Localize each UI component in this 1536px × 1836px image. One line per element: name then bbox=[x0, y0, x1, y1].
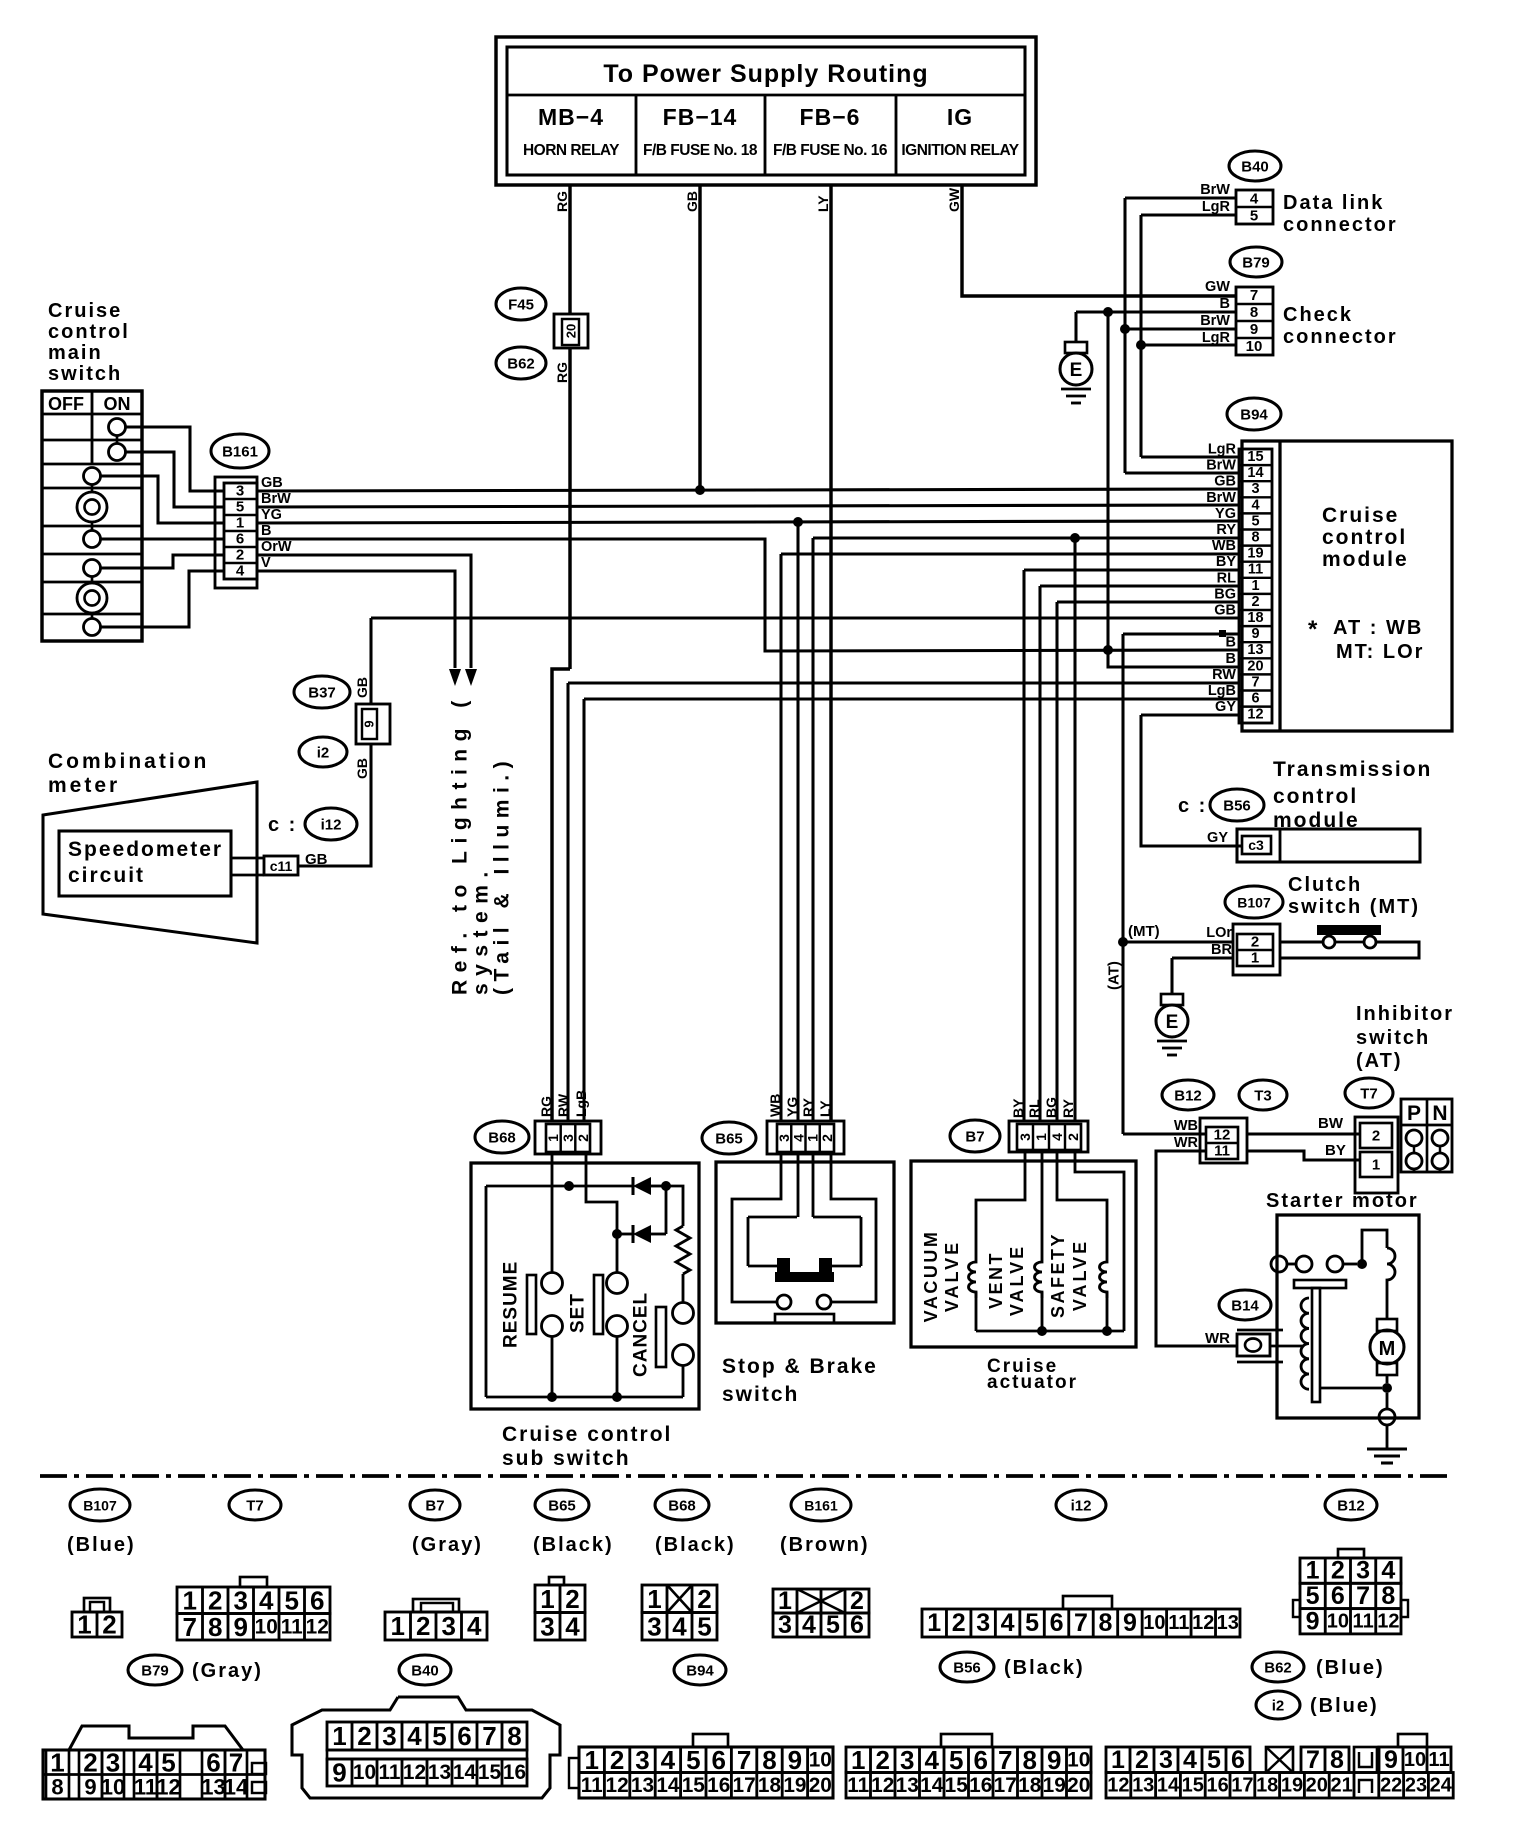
svg-text:1: 1 bbox=[236, 515, 244, 532]
svg-text:13: 13 bbox=[631, 1774, 654, 1797]
svg-text:AT : WB: AT : WB bbox=[1333, 617, 1423, 639]
svg-text:SAFETY: SAFETY bbox=[1048, 1232, 1068, 1318]
svg-text:15: 15 bbox=[945, 1774, 968, 1797]
svg-text:20: 20 bbox=[809, 1774, 832, 1797]
svg-text:12: 12 bbox=[1377, 1610, 1399, 1632]
svg-text:i12: i12 bbox=[321, 817, 342, 834]
svg-text:RW: RW bbox=[555, 1093, 571, 1117]
svg-text:4: 4 bbox=[1381, 1557, 1395, 1585]
svg-text:3: 3 bbox=[442, 1611, 456, 1641]
svg-text:*: * bbox=[1308, 616, 1318, 643]
svg-text:3: 3 bbox=[106, 1748, 120, 1778]
svg-text:17: 17 bbox=[733, 1774, 756, 1797]
svg-text:OFF: OFF bbox=[48, 394, 84, 414]
svg-text:5: 5 bbox=[1306, 1582, 1320, 1610]
svg-text:9: 9 bbox=[332, 1758, 346, 1788]
svg-text:B7: B7 bbox=[425, 1498, 444, 1515]
svg-text:13: 13 bbox=[201, 1775, 225, 1800]
svg-text:8: 8 bbox=[1330, 1746, 1344, 1774]
svg-text:14: 14 bbox=[224, 1775, 249, 1800]
svg-text:2: 2 bbox=[1135, 1746, 1149, 1774]
svg-text:5: 5 bbox=[686, 1745, 700, 1775]
svg-text:7: 7 bbox=[183, 1612, 197, 1642]
svg-text:11: 11 bbox=[379, 1761, 401, 1784]
svg-text:12: 12 bbox=[606, 1774, 629, 1797]
svg-text:2: 2 bbox=[236, 547, 244, 564]
svg-text:switch: switch bbox=[722, 1383, 799, 1406]
svg-text:20: 20 bbox=[1306, 1774, 1328, 1796]
svg-text:WB: WB bbox=[1174, 1118, 1198, 1134]
svg-text:11: 11 bbox=[1214, 1143, 1230, 1160]
svg-text:21: 21 bbox=[1330, 1774, 1352, 1796]
svg-text:OrW: OrW bbox=[261, 539, 292, 555]
svg-text:B: B bbox=[261, 523, 271, 539]
svg-text:T3: T3 bbox=[1254, 1088, 1272, 1105]
svg-text:4: 4 bbox=[259, 1585, 274, 1615]
svg-text:3: 3 bbox=[900, 1745, 914, 1775]
svg-text:VALVE: VALVE bbox=[1070, 1239, 1090, 1311]
svg-text:B56: B56 bbox=[953, 1660, 981, 1677]
svg-text:1: 1 bbox=[1372, 1157, 1380, 1174]
svg-text:7: 7 bbox=[998, 1745, 1012, 1775]
svg-text:5: 5 bbox=[285, 1585, 299, 1615]
svg-text:12: 12 bbox=[1192, 1612, 1214, 1634]
svg-text:B40: B40 bbox=[411, 1663, 439, 1680]
svg-text:4: 4 bbox=[661, 1745, 676, 1775]
svg-text:B12: B12 bbox=[1337, 1498, 1365, 1515]
svg-text:B107: B107 bbox=[83, 1498, 117, 1514]
svg-text:1: 1 bbox=[540, 1584, 554, 1614]
svg-text:3: 3 bbox=[540, 1611, 554, 1641]
svg-text:3: 3 bbox=[1251, 481, 1259, 497]
svg-text:(Black): (Black) bbox=[1004, 1657, 1085, 1679]
svg-text:B40: B40 bbox=[1241, 159, 1269, 176]
svg-text:1: 1 bbox=[1306, 1557, 1320, 1585]
svg-text:19: 19 bbox=[1281, 1774, 1303, 1796]
svg-text:VALVE: VALVE bbox=[942, 1240, 962, 1312]
svg-text:(Black): (Black) bbox=[533, 1534, 614, 1556]
svg-text:9: 9 bbox=[84, 1775, 96, 1800]
svg-text:6: 6 bbox=[974, 1745, 988, 1775]
svg-text:4: 4 bbox=[1250, 191, 1259, 208]
svg-text:i12: i12 bbox=[1071, 1498, 1092, 1515]
svg-text:7: 7 bbox=[737, 1745, 751, 1775]
svg-text:4: 4 bbox=[236, 563, 245, 580]
svg-text:14: 14 bbox=[1247, 465, 1263, 481]
svg-text:5: 5 bbox=[236, 499, 244, 516]
svg-text:1: 1 bbox=[1251, 578, 1259, 594]
svg-text:11: 11 bbox=[1428, 1749, 1449, 1771]
svg-text:5: 5 bbox=[1025, 1609, 1039, 1637]
svg-text:5: 5 bbox=[949, 1745, 963, 1775]
svg-text:3: 3 bbox=[1017, 1133, 1033, 1141]
svg-text:13: 13 bbox=[428, 1761, 451, 1784]
svg-text:M: M bbox=[1379, 1338, 1396, 1360]
svg-text:(Gray): (Gray) bbox=[412, 1534, 483, 1556]
svg-text:13: 13 bbox=[896, 1774, 919, 1797]
svg-text:8: 8 bbox=[1381, 1582, 1395, 1610]
svg-text:17: 17 bbox=[1231, 1774, 1253, 1796]
svg-text:13: 13 bbox=[1217, 1612, 1239, 1634]
svg-text:2: 2 bbox=[357, 1721, 371, 1751]
svg-text:2: 2 bbox=[565, 1584, 579, 1614]
svg-text:8: 8 bbox=[1098, 1609, 1112, 1637]
svg-text:BW: BW bbox=[1318, 1115, 1344, 1132]
svg-text:(AT): (AT) bbox=[1356, 1050, 1403, 1072]
svg-text:14: 14 bbox=[453, 1761, 477, 1784]
svg-text:GW: GW bbox=[1205, 279, 1230, 295]
svg-text:GY: GY bbox=[1215, 699, 1236, 715]
svg-text:12: 12 bbox=[156, 1775, 180, 1800]
svg-text:WR: WR bbox=[1205, 1330, 1230, 1347]
svg-text:8: 8 bbox=[208, 1612, 222, 1642]
svg-text:1: 1 bbox=[391, 1611, 405, 1641]
svg-text:module: module bbox=[1322, 548, 1409, 571]
svg-text:7: 7 bbox=[1306, 1746, 1320, 1774]
svg-text:4: 4 bbox=[925, 1745, 940, 1775]
svg-text:11: 11 bbox=[847, 1774, 869, 1797]
svg-text:2: 2 bbox=[952, 1609, 966, 1637]
svg-text:V: V bbox=[261, 555, 271, 571]
svg-text:1: 1 bbox=[647, 1584, 661, 1614]
svg-text:control: control bbox=[1273, 785, 1358, 808]
svg-text:LgR: LgR bbox=[1208, 442, 1237, 458]
svg-text:6: 6 bbox=[236, 531, 244, 548]
svg-text:VACUUM: VACUUM bbox=[921, 1230, 941, 1323]
svg-text:19: 19 bbox=[783, 1774, 806, 1797]
svg-text:11: 11 bbox=[134, 1775, 157, 1800]
svg-text:c :: c : bbox=[1178, 795, 1207, 817]
svg-text:5: 5 bbox=[1250, 208, 1258, 225]
svg-text:2: 2 bbox=[1251, 594, 1259, 610]
svg-text:2: 2 bbox=[697, 1584, 711, 1614]
svg-text:2: 2 bbox=[575, 1134, 591, 1142]
svg-text:F45: F45 bbox=[508, 297, 534, 314]
svg-text:12: 12 bbox=[306, 1615, 329, 1638]
svg-text:5: 5 bbox=[697, 1611, 711, 1641]
svg-text:3: 3 bbox=[1356, 1557, 1370, 1585]
svg-text:5: 5 bbox=[826, 1611, 840, 1639]
svg-text:BrW: BrW bbox=[1200, 182, 1230, 198]
svg-text:2: 2 bbox=[876, 1745, 890, 1775]
svg-text:1: 1 bbox=[50, 1748, 64, 1778]
svg-text:IGNITION RELAY: IGNITION RELAY bbox=[901, 142, 1019, 159]
svg-text:2: 2 bbox=[416, 1611, 430, 1641]
svg-text:Ref. to Lighting (: Ref. to Lighting ( bbox=[449, 693, 472, 995]
svg-text:20: 20 bbox=[1067, 1774, 1090, 1797]
svg-text:B68: B68 bbox=[488, 1130, 516, 1147]
svg-text:5: 5 bbox=[1207, 1746, 1221, 1774]
svg-text:B: B bbox=[1226, 651, 1236, 667]
svg-text:9: 9 bbox=[234, 1612, 248, 1642]
svg-text:3: 3 bbox=[382, 1721, 396, 1751]
svg-text:B65: B65 bbox=[548, 1498, 576, 1515]
svg-text:sub switch: sub switch bbox=[502, 1447, 631, 1470]
svg-text:(Blue): (Blue) bbox=[1316, 1657, 1385, 1679]
svg-text:9: 9 bbox=[788, 1745, 802, 1775]
svg-text:11: 11 bbox=[1248, 562, 1263, 578]
svg-text:B7: B7 bbox=[965, 1129, 984, 1146]
svg-text:switch: switch bbox=[48, 363, 122, 385]
svg-text:P: P bbox=[1407, 1102, 1421, 1125]
svg-text:B62: B62 bbox=[507, 356, 535, 373]
svg-text:5: 5 bbox=[161, 1748, 175, 1778]
svg-text:ON: ON bbox=[104, 394, 131, 414]
svg-text:3: 3 bbox=[647, 1611, 661, 1641]
svg-text:4: 4 bbox=[1001, 1609, 1015, 1637]
svg-text:10: 10 bbox=[353, 1761, 376, 1784]
svg-text:connector: connector bbox=[1283, 326, 1398, 348]
svg-text:F/B FUSE No. 16: F/B FUSE No. 16 bbox=[773, 142, 888, 159]
svg-text:6: 6 bbox=[206, 1748, 220, 1778]
svg-text:1: 1 bbox=[851, 1745, 865, 1775]
svg-text:BrW: BrW bbox=[1206, 490, 1236, 506]
svg-text:1: 1 bbox=[545, 1134, 561, 1142]
svg-text:actuator: actuator bbox=[987, 1372, 1078, 1393]
svg-text:WB: WB bbox=[767, 1094, 783, 1117]
svg-text:E: E bbox=[1166, 1012, 1179, 1033]
svg-text:9: 9 bbox=[1250, 321, 1258, 338]
svg-text:1: 1 bbox=[1251, 950, 1259, 967]
svg-text:LY: LY bbox=[815, 195, 831, 212]
svg-text:12: 12 bbox=[403, 1761, 426, 1784]
svg-text:12: 12 bbox=[1214, 1127, 1231, 1144]
svg-text:5: 5 bbox=[432, 1721, 446, 1751]
svg-text:LY: LY bbox=[817, 1100, 833, 1117]
svg-text:4: 4 bbox=[565, 1611, 580, 1641]
svg-text:T7: T7 bbox=[1360, 1086, 1378, 1103]
svg-text:23: 23 bbox=[1405, 1774, 1427, 1796]
svg-text:B68: B68 bbox=[668, 1498, 696, 1515]
svg-text:B: B bbox=[1220, 296, 1230, 312]
svg-text:9: 9 bbox=[1384, 1746, 1398, 1774]
svg-text:MB−4: MB−4 bbox=[538, 104, 604, 130]
svg-text:FB−14: FB−14 bbox=[663, 104, 738, 130]
svg-text:N: N bbox=[1432, 1102, 1447, 1125]
svg-text:LgB: LgB bbox=[573, 1090, 589, 1117]
svg-text:WR: WR bbox=[1174, 1135, 1199, 1151]
svg-text:2: 2 bbox=[1372, 1128, 1380, 1145]
svg-text:i2: i2 bbox=[317, 745, 330, 762]
svg-text:B: B bbox=[1226, 635, 1236, 651]
svg-text:Combination: Combination bbox=[48, 750, 209, 773]
svg-text:HORN RELAY: HORN RELAY bbox=[523, 142, 620, 159]
svg-text:GB: GB bbox=[305, 851, 328, 868]
svg-text:B62: B62 bbox=[1264, 1660, 1292, 1677]
svg-text:YG: YG bbox=[261, 507, 282, 523]
svg-text:14: 14 bbox=[920, 1774, 944, 1797]
svg-text:8: 8 bbox=[1023, 1745, 1037, 1775]
svg-text:i2: i2 bbox=[1272, 1698, 1285, 1715]
svg-text:10: 10 bbox=[1404, 1749, 1426, 1771]
svg-text:Clutch: Clutch bbox=[1288, 874, 1362, 896]
svg-text:5: 5 bbox=[1251, 513, 1259, 529]
svg-text:Cruise control: Cruise control bbox=[502, 1423, 672, 1446]
svg-text:RW: RW bbox=[1212, 667, 1236, 683]
svg-text:RL: RL bbox=[1026, 1099, 1042, 1118]
svg-text:8: 8 bbox=[51, 1775, 63, 1800]
svg-text:main: main bbox=[48, 342, 103, 364]
svg-text:E: E bbox=[1070, 360, 1083, 381]
svg-text:1: 1 bbox=[1033, 1133, 1049, 1141]
svg-text:GB: GB bbox=[684, 191, 700, 212]
svg-text:2: 2 bbox=[208, 1585, 222, 1615]
svg-text:4: 4 bbox=[1183, 1746, 1197, 1774]
svg-text:6: 6 bbox=[850, 1611, 864, 1639]
svg-text:LgB: LgB bbox=[1208, 683, 1236, 699]
svg-text:GB: GB bbox=[1214, 474, 1236, 490]
svg-text:IG: IG bbox=[947, 104, 973, 130]
svg-text:15: 15 bbox=[1247, 449, 1263, 465]
svg-text:9: 9 bbox=[1123, 1609, 1137, 1637]
svg-text:2: 2 bbox=[819, 1134, 835, 1142]
svg-text:10: 10 bbox=[1246, 338, 1263, 355]
svg-text:18: 18 bbox=[1018, 1774, 1041, 1797]
svg-text:3: 3 bbox=[234, 1585, 248, 1615]
svg-text:3: 3 bbox=[976, 1609, 990, 1637]
svg-text:6: 6 bbox=[1050, 1609, 1064, 1637]
svg-text:15: 15 bbox=[682, 1774, 705, 1797]
svg-text:4: 4 bbox=[802, 1611, 816, 1639]
svg-text:RL: RL bbox=[1217, 570, 1236, 586]
svg-text:6: 6 bbox=[711, 1745, 725, 1775]
svg-text:B12: B12 bbox=[1174, 1088, 1202, 1105]
svg-text:Starter motor: Starter motor bbox=[1266, 1190, 1419, 1212]
svg-text:GB: GB bbox=[354, 758, 370, 779]
svg-text:B94: B94 bbox=[686, 1663, 714, 1680]
svg-text:4: 4 bbox=[1251, 497, 1259, 513]
svg-text:19: 19 bbox=[1247, 546, 1263, 562]
svg-text:3: 3 bbox=[236, 483, 244, 500]
svg-text:1: 1 bbox=[1111, 1746, 1125, 1774]
svg-text:RG: RG bbox=[538, 1096, 554, 1117]
svg-text:(Blue): (Blue) bbox=[1310, 1695, 1379, 1717]
svg-text:9: 9 bbox=[362, 720, 377, 727]
svg-text:7: 7 bbox=[482, 1721, 496, 1751]
svg-text:6: 6 bbox=[1231, 1746, 1245, 1774]
svg-text:switch (MT): switch (MT) bbox=[1288, 896, 1420, 918]
svg-text:10: 10 bbox=[1067, 1748, 1090, 1771]
svg-text:10: 10 bbox=[809, 1748, 832, 1771]
svg-text:2: 2 bbox=[102, 1610, 116, 1640]
svg-text:(Gray): (Gray) bbox=[192, 1660, 263, 1682]
svg-text:4: 4 bbox=[1049, 1133, 1065, 1141]
svg-text:12: 12 bbox=[1107, 1774, 1129, 1796]
svg-text:BY: BY bbox=[1216, 554, 1236, 570]
svg-text:8: 8 bbox=[1250, 304, 1258, 321]
svg-text:14: 14 bbox=[656, 1774, 680, 1797]
svg-text:GB: GB bbox=[261, 475, 283, 491]
svg-text:Inhibitor: Inhibitor bbox=[1356, 1003, 1454, 1025]
svg-text:B14: B14 bbox=[1231, 1298, 1259, 1315]
svg-text:10: 10 bbox=[101, 1775, 125, 1800]
svg-text:Data link: Data link bbox=[1283, 192, 1384, 214]
svg-text:switch: switch bbox=[1356, 1027, 1430, 1049]
svg-text:8: 8 bbox=[762, 1745, 776, 1775]
svg-text:7: 7 bbox=[1251, 674, 1259, 690]
svg-text:VENT: VENT bbox=[986, 1251, 1006, 1309]
svg-text:15: 15 bbox=[478, 1761, 501, 1784]
svg-text:BY: BY bbox=[1325, 1142, 1346, 1159]
svg-text:10: 10 bbox=[255, 1615, 278, 1638]
svg-text:BrW: BrW bbox=[261, 491, 291, 507]
svg-text:7: 7 bbox=[1250, 287, 1258, 304]
svg-text:connector: connector bbox=[1283, 214, 1398, 236]
svg-text:B37: B37 bbox=[308, 685, 336, 702]
svg-text:BG: BG bbox=[1043, 1097, 1059, 1118]
svg-text:B94: B94 bbox=[1240, 407, 1268, 424]
svg-text:CANCEL: CANCEL bbox=[631, 1292, 652, 1377]
svg-text:BG: BG bbox=[1214, 586, 1236, 602]
svg-text:1: 1 bbox=[584, 1745, 598, 1775]
svg-text:BrW: BrW bbox=[1200, 313, 1230, 329]
svg-text:16: 16 bbox=[503, 1761, 526, 1784]
svg-text:B107: B107 bbox=[1237, 895, 1271, 911]
svg-text:4: 4 bbox=[467, 1611, 482, 1641]
svg-text:22: 22 bbox=[1380, 1774, 1402, 1796]
svg-text:Transmission: Transmission bbox=[1273, 758, 1432, 781]
svg-text:B79: B79 bbox=[141, 1663, 169, 1680]
svg-text:RESUME: RESUME bbox=[501, 1261, 522, 1348]
svg-text:1: 1 bbox=[332, 1721, 346, 1751]
svg-text:20: 20 bbox=[564, 324, 579, 338]
svg-text:SET: SET bbox=[568, 1293, 589, 1333]
svg-text:GB: GB bbox=[354, 677, 370, 698]
svg-text:1: 1 bbox=[77, 1610, 91, 1640]
svg-text:Cruise: Cruise bbox=[48, 300, 122, 322]
svg-text:12: 12 bbox=[1247, 707, 1263, 723]
svg-text:(Brown): (Brown) bbox=[780, 1534, 870, 1556]
svg-text:(Black): (Black) bbox=[655, 1534, 736, 1556]
svg-text:6: 6 bbox=[310, 1585, 324, 1615]
svg-text:9: 9 bbox=[1047, 1745, 1061, 1775]
svg-text:RY: RY bbox=[1216, 522, 1236, 538]
svg-text:4: 4 bbox=[138, 1748, 153, 1778]
svg-text:3: 3 bbox=[778, 1611, 792, 1639]
svg-text:6: 6 bbox=[1331, 1582, 1345, 1610]
svg-text:8: 8 bbox=[1251, 530, 1259, 546]
svg-text:YG: YG bbox=[784, 1097, 800, 1117]
svg-text:control: control bbox=[48, 321, 130, 343]
svg-text:18: 18 bbox=[758, 1774, 781, 1797]
svg-text:7: 7 bbox=[229, 1748, 243, 1778]
svg-text:3: 3 bbox=[635, 1745, 649, 1775]
svg-text:(Tail & Illumi.): (Tail & Illumi.) bbox=[491, 755, 514, 995]
svg-text:10: 10 bbox=[1143, 1612, 1165, 1634]
svg-text:BY: BY bbox=[1010, 1098, 1026, 1118]
svg-text:15: 15 bbox=[1182, 1774, 1204, 1796]
svg-text:10: 10 bbox=[1327, 1610, 1349, 1632]
svg-text:8: 8 bbox=[507, 1721, 521, 1751]
svg-text:GW: GW bbox=[946, 187, 962, 212]
svg-text:(MT): (MT) bbox=[1128, 923, 1160, 940]
svg-text:(AT): (AT) bbox=[1106, 961, 1123, 990]
svg-text:7: 7 bbox=[1356, 1582, 1370, 1610]
svg-text:13: 13 bbox=[1132, 1774, 1154, 1796]
svg-text:6: 6 bbox=[1251, 691, 1259, 707]
svg-text:7: 7 bbox=[1074, 1609, 1088, 1637]
svg-text:4: 4 bbox=[672, 1611, 687, 1641]
svg-text:18: 18 bbox=[1256, 1774, 1278, 1796]
svg-text:meter: meter bbox=[48, 774, 120, 797]
svg-text:11: 11 bbox=[1168, 1612, 1189, 1634]
svg-text:2: 2 bbox=[1251, 934, 1259, 951]
svg-text:VALVE: VALVE bbox=[1007, 1244, 1027, 1316]
svg-text:system.: system. bbox=[470, 864, 493, 995]
svg-text:circuit: circuit bbox=[68, 864, 145, 887]
svg-text:B161: B161 bbox=[222, 444, 258, 461]
svg-text:B79: B79 bbox=[1242, 255, 1270, 272]
